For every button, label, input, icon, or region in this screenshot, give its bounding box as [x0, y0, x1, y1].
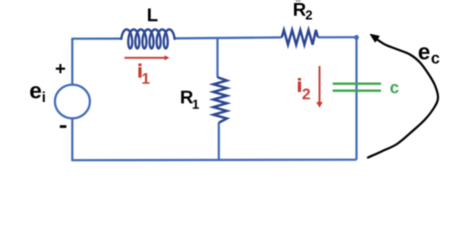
curved arrow for e_c — [368, 40, 438, 158]
resistor R2 zigzag — [282, 30, 318, 45]
stray gray tick above R2 — [296, 0, 301, 2]
wire: R1 branch lower — [218, 123, 220, 161]
node at top-right corner — [354, 35, 359, 40]
label c (green) — [390, 84, 398, 93]
wire: top right segment — [318, 36, 357, 38]
label e_i — [30, 86, 41, 98]
capacitor C plates — [333, 84, 381, 91]
wire: top left segment — [73, 37, 122, 39]
current arrow i1 — [124, 57, 165, 59]
wire: left vertical upper — [71, 38, 73, 85]
wire: bottom — [71, 159, 356, 162]
voltage source e_i circle — [55, 85, 90, 119]
plus sign of source — [56, 64, 65, 73]
label L — [148, 9, 158, 22]
inductor L coil — [121, 29, 174, 48]
wire: right vertical — [355, 37, 357, 160]
label R2 — [294, 3, 306, 16]
label e_c — [419, 47, 430, 59]
current arrow i2 — [319, 66, 321, 103]
wire: top middle segment — [175, 37, 282, 38]
wire: left vertical lower — [71, 118, 73, 160]
label i1 — [139, 64, 142, 77]
resistor R1 zigzag — [213, 77, 227, 123]
minus sign of source — [60, 125, 67, 128]
label i2 — [298, 78, 301, 91]
arrowhead of curved arrow — [370, 34, 379, 42]
label R1 — [181, 91, 193, 104]
wire: R1 branch upper — [216, 38, 218, 77]
